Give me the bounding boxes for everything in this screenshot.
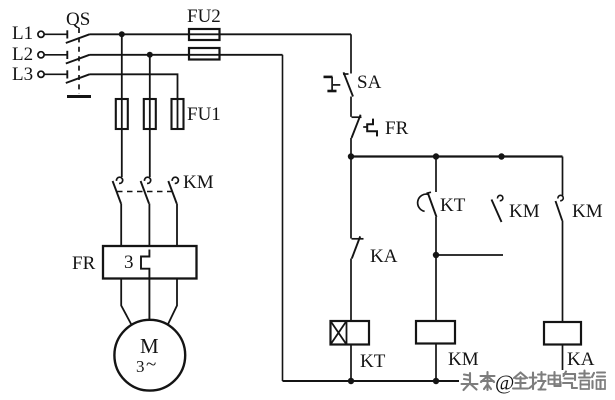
- time relay coil KT: [331, 321, 370, 345]
- junction dot bus / KT branch: [433, 153, 439, 159]
- junction dot L2 / FU1 branch: [147, 52, 153, 58]
- wire L2 row from QS to corner: [90, 54, 283, 56]
- fuse FU1-1: [116, 99, 128, 129]
- svg-text:FU1: FU1: [187, 104, 221, 125]
- wire KA coil to bottom bus: [562, 345, 564, 382]
- svg-text:KT: KT: [360, 351, 386, 372]
- svg-text:QS: QS: [66, 9, 90, 30]
- wire L2 terminal to QS: [44, 54, 67, 56]
- svg-text:KM: KM: [572, 201, 603, 222]
- KM main contacts mechanical link (dashed): [117, 191, 172, 193]
- relay contact KA (NO): [352, 236, 364, 258]
- thermal relay FR NC contact: [352, 115, 378, 138]
- wire FU1 branch 1: [121, 34, 123, 177]
- top control bus: [351, 155, 563, 157]
- wire bus to KA contact: [350, 157, 352, 239]
- svg-text:KM: KM: [509, 201, 540, 222]
- wire FR contact to top bus: [350, 138, 352, 157]
- wire KA contact to KT coil: [350, 259, 352, 322]
- knife switch QS pole 2: [66, 51, 90, 64]
- svg-text:3: 3: [136, 357, 145, 376]
- wire KM pole2 to FR box: [148, 204, 150, 251]
- svg-text:@: @: [495, 371, 514, 395]
- wire FR box to motor right: [165, 279, 177, 331]
- svg-text:KM: KM: [183, 172, 214, 193]
- wire KT contact to junction: [435, 217, 437, 321]
- knife switch QS pole 1: [66, 30, 90, 43]
- svg-text:3: 3: [124, 252, 134, 273]
- junction dot bus / KM aux branch: [498, 153, 504, 159]
- terminal L1: [12, 23, 44, 44]
- fuse FU1-2: [144, 99, 156, 129]
- junction dot KT branch / KM aux link: [433, 252, 439, 258]
- junction dot bottom bus / KM coil: [433, 378, 439, 384]
- contactor main contact KM pole 2: [141, 177, 151, 203]
- svg-text:FR: FR: [385, 118, 409, 139]
- motor M: [114, 320, 185, 391]
- contactor coil KM: [416, 321, 455, 344]
- wire L3 terminal to QS: [44, 73, 67, 75]
- wire SA to FR contact: [350, 97, 352, 117]
- knife switch QS pole 3: [66, 70, 90, 83]
- svg-text:L1: L1: [12, 23, 33, 44]
- wire L1 row from QS to corner: [90, 33, 352, 35]
- bottom bus: [283, 380, 563, 382]
- junction dot bottom bus / KT coil: [348, 378, 354, 384]
- wire FR box to motor middle: [148, 279, 150, 321]
- relay coil KA: [544, 322, 581, 345]
- junction dot bus / KA branch: [348, 153, 354, 159]
- fuse FU1-3: [172, 99, 184, 129]
- contactor main contact KM pole 3: [168, 177, 178, 203]
- junction dot L1 / FU1 branch: [119, 31, 125, 37]
- wire right KM contact to KA coil: [562, 221, 564, 323]
- contactor aux contact KM (right, NO): [556, 195, 564, 220]
- svg-text:KA: KA: [370, 246, 398, 267]
- terminal L2: [12, 44, 44, 65]
- thermal relay FR heater element jog: [141, 250, 149, 279]
- wire L3 row from QS to FU1 branch: [90, 74, 178, 99]
- wire KM coil to bottom bus: [435, 344, 437, 382]
- watermark 头条@全球电气资源: [459, 370, 615, 392]
- switch SA (manual control switch, NC): [324, 72, 354, 96]
- wire KT coil to bottom bus: [350, 345, 352, 382]
- wire bus corner to right KM contact: [562, 157, 564, 196]
- svg-text:FR: FR: [72, 253, 96, 274]
- knife switch QS handle bar: [67, 95, 91, 98]
- svg-text:KM: KM: [448, 349, 479, 370]
- fuse FU2-2: [189, 48, 220, 60]
- wire L1 terminal to QS: [44, 33, 67, 35]
- contactor aux contact KM (self-hold, NO): [492, 195, 503, 222]
- wire L2 drop to bottom bus: [282, 55, 284, 381]
- svg-text:L3: L3: [12, 64, 33, 85]
- wire FR box to motor left: [121, 279, 134, 331]
- svg-text:KT: KT: [440, 195, 466, 216]
- svg-text:FU2: FU2: [187, 6, 221, 27]
- wire KM pole3 to FR box: [176, 204, 178, 247]
- terminal L3: [12, 64, 44, 85]
- fuse FU2-1: [189, 29, 220, 40]
- wire L1 feed drop to SA: [350, 34, 352, 73]
- wire FU1 branch 2: [149, 55, 151, 177]
- wire bus to KT contact: [435, 157, 437, 193]
- contactor main contact KM pole 1: [113, 177, 123, 203]
- svg-text:~: ~: [146, 354, 156, 375]
- time relay delayed contact KT (NO, delay on close): [418, 192, 437, 217]
- knife switch QS mechanical link (dashed): [78, 28, 80, 94]
- wire junction to below KM aux contact: [436, 254, 503, 256]
- svg-text:KA: KA: [567, 349, 595, 370]
- svg-text:SA: SA: [357, 72, 382, 93]
- svg-text:L2: L2: [12, 44, 33, 65]
- thermal relay FR heater box: [103, 246, 197, 279]
- wire KM pole1 to FR box: [120, 204, 122, 247]
